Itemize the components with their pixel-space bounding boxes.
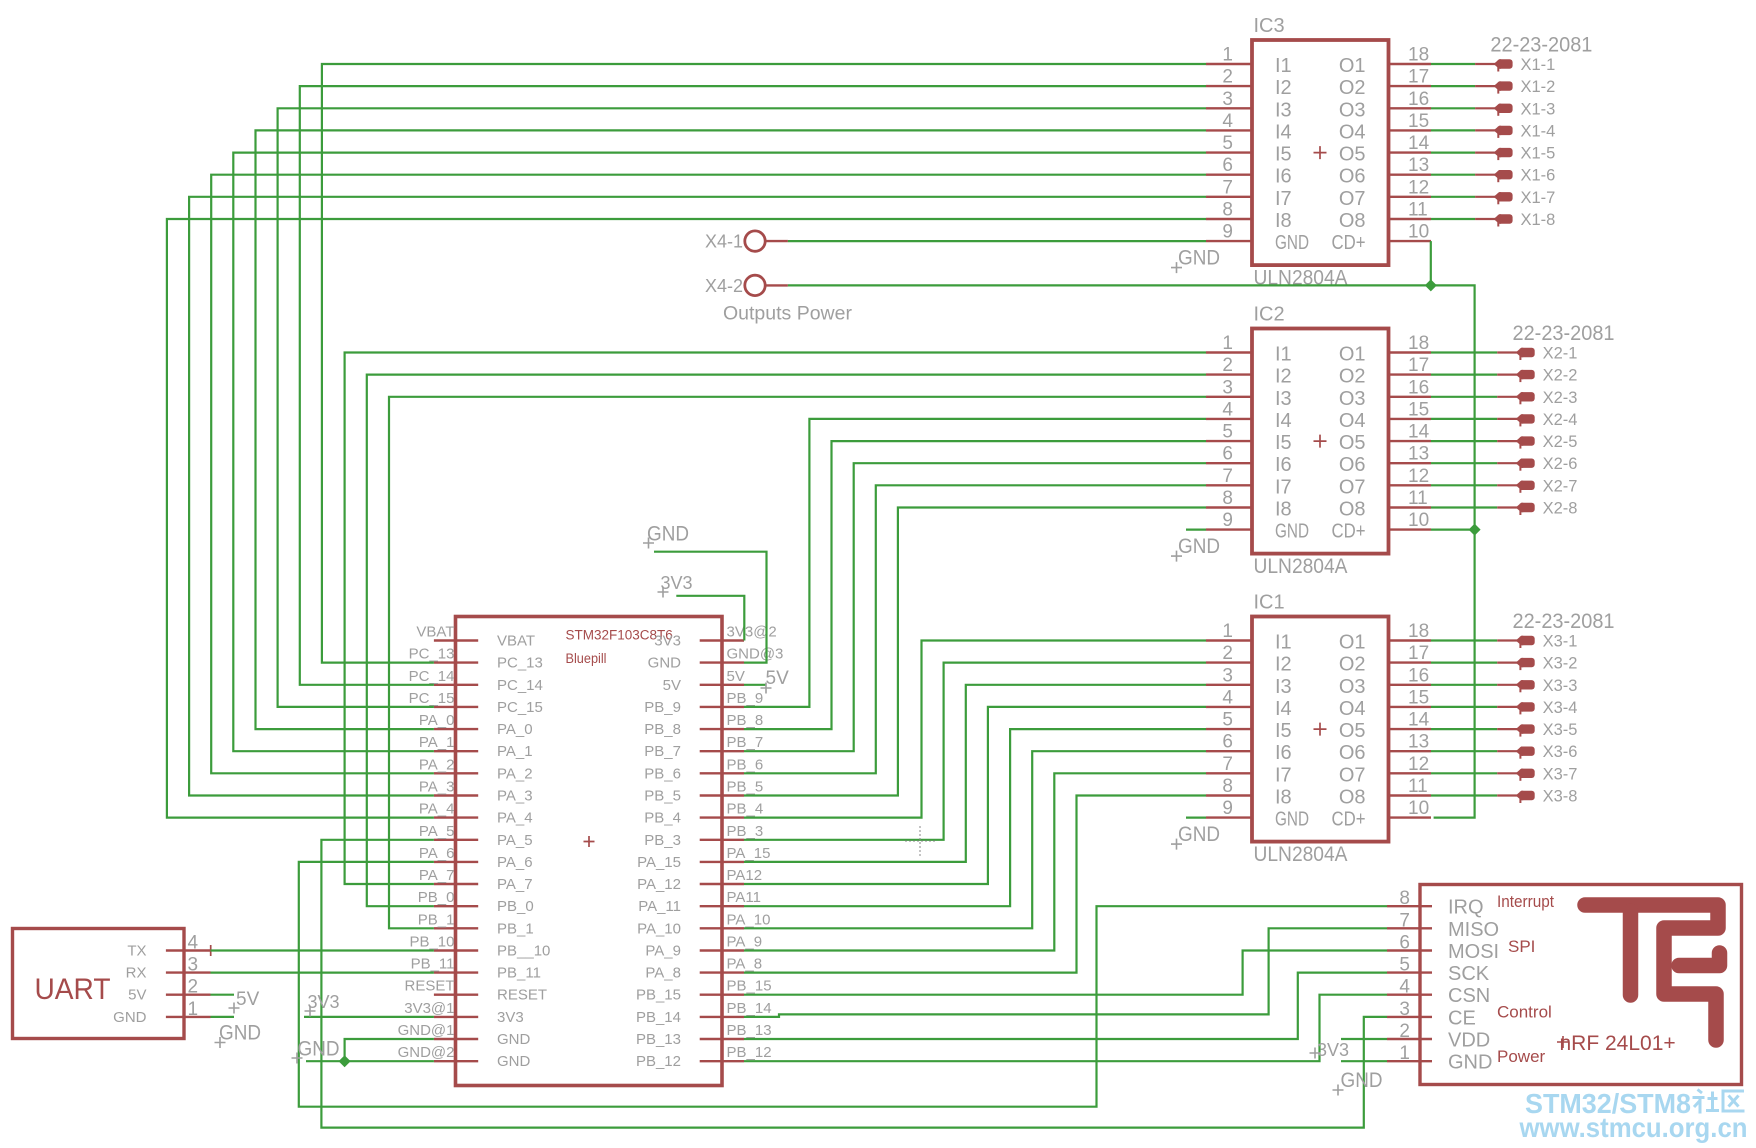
junction X4-2/IC3 CD+ [1425,279,1437,291]
wire IC2 O5 to X2-5 [1431,440,1497,442]
Bluepill right pin PB_15 stub [700,994,744,996]
svg-text:O4: O4 [1339,121,1366,143]
IC3 pin 6 (I6) stub [1206,173,1252,175]
UART pin TX stub [166,949,211,951]
svg-text:9: 9 [1222,222,1233,243]
Bluepill right pin PB_4 stub [700,816,744,818]
connector X1-3 pin [1475,107,1495,109]
svg-text:8: 8 [1222,200,1233,221]
svg-text:4: 4 [1222,687,1233,708]
Bluepill left pin PA_5 stub [434,839,478,841]
wire PB_8 to IC2 I5 [744,441,1206,729]
svg-text:PB_14: PB_14 [727,1000,772,1017]
svg-text:PA_3: PA_3 [497,788,533,805]
svg-text:Interrupt: Interrupt [1497,892,1554,911]
svg-text:O8: O8 [1339,499,1366,521]
svg-text:PA_8: PA_8 [727,956,763,973]
IC1 pin 16 (O3) stub [1389,684,1432,686]
svg-text:CE: CE [1448,1007,1476,1029]
wire IC1 O8 to X3-8 [1431,794,1497,796]
wire GND@2 to ground [306,1060,434,1062]
connector X1-1 pin [1475,63,1495,65]
wire IC3 O2 to X1-2 [1431,85,1475,87]
svg-text:3V3@2: 3V3@2 [727,624,777,641]
IC3 pin 2 (I2) stub [1206,85,1252,87]
svg-text:10: 10 [1408,510,1429,531]
Bluepill right pin PB_8 stub [700,728,744,730]
svg-text:5: 5 [1399,955,1410,976]
Bluepill left pin GND stub [434,1060,478,1062]
svg-text:7: 7 [1222,177,1233,198]
wire PA_12 to IC1 I4 [744,707,1206,884]
wire IC3 O1 to X1-1 [1431,63,1475,65]
svg-text:PB_5: PB_5 [727,779,764,796]
connector X4-2 pin stub [766,284,788,286]
nRF logo hook [1679,953,1720,966]
svg-text:3V3: 3V3 [308,992,340,1012]
svg-text:14: 14 [1408,133,1430,154]
IC2 pin 8 (I8) stub [1206,506,1252,508]
IC1 pin 7 (I7) stub [1206,772,1252,774]
svg-text:PA_7: PA_7 [497,876,533,893]
Bluepill right pin PB_14 stub [700,1016,744,1018]
wire PB_3 to IC1 I2 [744,663,1206,840]
svg-text:PB__10: PB__10 [497,943,550,960]
Bluepill left pin PB_0 stub [434,905,478,907]
svg-text:GND@3: GND@3 [727,646,784,663]
svg-text:8: 8 [1222,776,1233,797]
connector X2-7 pin [1497,484,1517,486]
IC1 pin 8 (I8) stub [1206,794,1252,796]
svg-text:10: 10 [1408,222,1429,243]
wire IC3 O4 to X1-4 [1431,129,1475,131]
IC2 pin 18 (O1) stub [1389,351,1432,353]
svg-text:PB_4: PB_4 [644,810,681,827]
nRF logo T-stem [1623,911,1639,995]
svg-text:PA_9: PA_9 [727,934,763,951]
svg-text:I4: I4 [1275,698,1292,720]
svg-text:X1-3: X1-3 [1521,100,1556,118]
svg-text:Bluepill: Bluepill [566,650,607,666]
svg-text:3V3: 3V3 [654,633,681,650]
svg-text:X2-2: X2-2 [1543,367,1578,385]
IC1 origin cross [1314,723,1327,736]
IC2 pin 14 (O5) stub [1389,440,1432,442]
svg-text:Control: Control [1497,1003,1552,1022]
svg-text:PA_6: PA_6 [497,854,533,871]
svg-text:PB_8: PB_8 [644,721,681,738]
wire PC_14 to IC3 I2 [300,86,1206,685]
Bluepill left pin PC_14 stub [434,684,478,686]
svg-text:7: 7 [1222,754,1233,775]
Bluepill right pin PA_10 stub [700,927,744,929]
svg-text:11: 11 [1408,776,1428,797]
connector X3-4 pin [1497,706,1517,708]
svg-text:I2: I2 [1275,654,1292,676]
svg-text:PA_9: PA_9 [645,943,681,960]
svg-text:I7: I7 [1275,764,1292,786]
svg-text:ULN2804A: ULN2804A [1254,843,1348,866]
wire PB_12 to nRF CSN [744,995,1387,1061]
svg-text:2: 2 [1222,355,1233,376]
svg-text:RESET: RESET [404,978,454,995]
IC2 pin 4 (I4) stub [1206,418,1252,420]
UART origin cross [205,945,216,956]
svg-text:X4-2: X4-2 [705,276,743,296]
svg-text:PC_13: PC_13 [497,655,543,672]
svg-text:O5: O5 [1339,432,1366,454]
svg-text:PB_7: PB_7 [727,734,764,751]
svg-text:I4: I4 [1275,410,1292,432]
svg-text:I8: I8 [1275,787,1292,809]
svg-text:I8: I8 [1275,499,1292,521]
svg-text:3V3: 3V3 [661,573,693,593]
wire IC2 O4 to X2-4 [1431,418,1497,420]
svg-text:PA_10: PA_10 [727,911,771,928]
svg-text:1: 1 [1222,45,1233,66]
nRF pin CE stub [1387,1016,1432,1018]
Bluepill right pin GND stub [700,661,744,663]
IC1 pin 2 (I2) stub [1206,661,1252,663]
connector X3-2 pin [1497,661,1517,663]
svg-text:GND: GND [1275,809,1309,831]
svg-text:3: 3 [1222,377,1233,398]
svg-text:X1-1: X1-1 [1521,56,1556,74]
wire IC1 O1 to X3-1 [1431,639,1497,641]
wire IC2 O3 to X2-3 [1431,396,1497,398]
svg-text:11: 11 [1408,488,1428,509]
wire IC1 O4 to X3-4 [1431,706,1497,708]
svg-text:18: 18 [1408,333,1429,354]
IC IC3 ULN2804A box [1252,40,1389,265]
svg-text:22-23-2081: 22-23-2081 [1490,34,1592,57]
connector X3-6 pin [1497,750,1517,752]
IC1 pin 1 (I1) stub [1206,639,1252,641]
svg-text:18: 18 [1408,45,1429,66]
Bluepill left pin PB_11 stub [434,971,478,973]
connector X1-7 pin [1475,196,1495,198]
wire PA_2 to IC3 I6 [211,175,1206,774]
svg-text:3: 3 [188,955,199,976]
nRF logo T-bar [1585,905,1718,1040]
svg-text:PA_4: PA_4 [497,810,533,827]
svg-text:1: 1 [1222,333,1233,354]
svg-text:I6: I6 [1275,166,1292,188]
svg-text:10: 10 [1408,798,1429,819]
Bluepill right pin PB_6 stub [700,772,744,774]
IC1 pin 15 (O4) stub [1389,706,1432,708]
svg-text:18: 18 [1408,621,1429,642]
svg-text:6: 6 [1222,155,1233,176]
IC3 pin 18 (O1) stub [1389,63,1432,65]
svg-text:X2-6: X2-6 [1543,455,1578,473]
IC3 pin 14 (O5) stub [1389,151,1432,153]
svg-text:IC1: IC1 [1254,592,1285,614]
IC3 pin 17 (O2) stub [1389,85,1432,87]
svg-text:5: 5 [1222,422,1233,443]
svg-text:PB_14: PB_14 [636,1009,681,1026]
svg-text:PA_1: PA_1 [419,734,455,751]
wire PB_1 to IC2 I3 [389,397,1206,929]
svg-text:X1-5: X1-5 [1521,145,1556,163]
wire IC1 O5 to X3-5 [1431,728,1497,730]
svg-text:X3-3: X3-3 [1543,677,1578,695]
svg-text:GND: GND [497,1031,531,1048]
wire IC1 O2 to X3-2 [1431,661,1497,663]
connector X1-5 pin [1475,152,1495,154]
wire PC_13 to IC3 I1 [322,64,1206,663]
svg-text:PB_1: PB_1 [418,911,455,928]
svg-text:O7: O7 [1339,188,1366,210]
svg-text:6: 6 [1399,933,1410,954]
wire IC2 O8 to X2-8 [1431,506,1497,508]
svg-text:Outputs Power: Outputs Power [723,303,852,325]
svg-text:X4-1: X4-1 [705,232,743,252]
svg-text:X1-4: X1-4 [1521,122,1556,140]
svg-text:PB_7: PB_7 [644,743,681,760]
svg-text:I3: I3 [1275,676,1292,698]
svg-text:16: 16 [1408,665,1429,686]
svg-text:VBAT: VBAT [416,624,454,641]
wire PA_3 to IC3 I7 [189,197,1206,796]
svg-text:PB_9: PB_9 [727,690,764,707]
UART pin RX stub [166,971,211,973]
svg-text:1: 1 [1222,621,1233,642]
svg-text:PB_0: PB_0 [497,898,534,915]
svg-text:16: 16 [1408,89,1429,110]
wire PA_5 to nRF CE [321,840,1387,1128]
svg-text:PC_13: PC_13 [409,646,455,663]
svg-text:I3: I3 [1275,99,1292,121]
svg-text:7: 7 [1222,466,1233,487]
svg-text:CSN: CSN [1448,985,1490,1007]
IC2 pin 15 (O4) stub [1389,418,1432,420]
svg-text:9: 9 [1222,798,1233,819]
Bluepill left pin PA_0 stub [434,728,478,730]
watermark CJK qu [1723,1091,1745,1111]
svg-text:GND: GND [1275,521,1309,543]
svg-text:8: 8 [1222,488,1233,509]
svg-text:I7: I7 [1275,476,1292,498]
svg-text:4: 4 [188,933,199,954]
IC3 pin 11 (O8) stub [1389,218,1432,220]
svg-text:9: 9 [1222,510,1233,531]
svg-text:X1-6: X1-6 [1521,167,1556,185]
junction IC2 CD+ [1469,524,1481,536]
svg-text:I2: I2 [1275,77,1292,99]
svg-text:4: 4 [1222,111,1233,132]
nRF origin cross [1557,1036,1569,1048]
svg-text:PA_6: PA_6 [419,845,455,862]
wire IC3 O6 to X1-6 [1431,174,1475,176]
IC3 pin 12 (O7) stub [1389,196,1432,198]
svg-text:O1: O1 [1339,344,1366,366]
wire IC1 O7 to X3-7 [1431,772,1497,774]
svg-text:RESET: RESET [497,987,547,1004]
Bluepill origin cross [584,836,595,847]
svg-text:PB_11: PB_11 [411,956,455,973]
svg-text:5V: 5V [663,677,681,694]
svg-text:IC2: IC2 [1254,304,1285,326]
svg-text:X3-1: X3-1 [1543,633,1578,651]
cursor crosshair artifact [905,826,935,856]
Bluepill left pin PC_15 stub [434,706,478,708]
svg-text:MOSI: MOSI [1448,941,1499,963]
svg-text:I6: I6 [1275,454,1292,476]
Bluepill left pin 3V3 stub [434,1016,478,1018]
svg-text:I8: I8 [1275,210,1292,232]
connector X2-3 pin [1497,396,1517,398]
wire PA_6 to nRF IRQ [299,862,1387,1107]
Bluepill right pin PA_8 stub [700,971,744,973]
connector X3-8 pin [1497,794,1517,796]
svg-text:GND: GND [219,1021,261,1045]
svg-text:Power: Power [1497,1047,1546,1066]
IC2 pin 12 (O7) stub [1389,484,1432,486]
IC1 pin 11 (O8) stub [1389,794,1432,796]
svg-text:PB_15: PB_15 [636,987,681,1004]
svg-text:CD+: CD+ [1332,521,1366,543]
svg-text:15: 15 [1408,687,1429,708]
connector X4-1 pad circle [745,231,765,251]
svg-text:O4: O4 [1339,698,1366,720]
svg-text:I1: I1 [1275,344,1292,366]
svg-text:PC_14: PC_14 [497,677,543,694]
svg-text:6: 6 [1222,444,1233,465]
wire PA_11 to IC1 I5 [744,729,1206,906]
svg-text:X3-8: X3-8 [1543,788,1578,806]
wire IC1 O3 to X3-3 [1431,684,1497,686]
IC2 origin cross [1314,435,1327,448]
svg-text:X3-6: X3-6 [1543,743,1578,761]
svg-text:PA_2: PA_2 [419,756,455,773]
IC2 pin 11 (O8) stub [1389,506,1432,508]
svg-text:4: 4 [1222,399,1233,420]
Bluepill right pin PB_9 stub [700,706,744,708]
svg-text:I1: I1 [1275,55,1292,77]
IC2 pin 13 (O6) stub [1389,462,1432,464]
svg-text:X3-5: X3-5 [1543,721,1578,739]
svg-text:O1: O1 [1339,55,1366,77]
svg-text:2: 2 [1399,1021,1410,1042]
svg-text:13: 13 [1408,732,1429,753]
svg-text:O3: O3 [1339,99,1366,121]
svg-text:12: 12 [1408,754,1429,775]
junction GND@1/GND@2 [339,1055,351,1067]
svg-text:PB_13: PB_13 [636,1031,681,1048]
connector X1-6 pin [1475,174,1495,176]
wire 3V3@2 to supply [676,596,744,641]
svg-text:PC_15: PC_15 [409,690,455,707]
svg-text:PA_3: PA_3 [419,779,455,796]
svg-text:nRF 24L01+: nRF 24L01+ [1560,1032,1676,1055]
IC3 origin cross [1314,146,1327,159]
svg-text:I5: I5 [1275,144,1292,166]
svg-text:SCK: SCK [1448,963,1490,985]
svg-text:3V3: 3V3 [1317,1040,1349,1060]
svg-text:14: 14 [1408,422,1430,443]
nRF24L01+ module box [1420,885,1742,1085]
svg-text:I3: I3 [1275,388,1292,410]
svg-text:1: 1 [188,999,199,1020]
svg-text:PA_0: PA_0 [497,721,533,738]
IC2 pin 9 (GND) stub [1206,528,1252,530]
IC2 pin 17 (O2) stub [1389,373,1432,375]
svg-text:X2-8: X2-8 [1543,500,1578,518]
IC1 pin 4 (I4) stub [1206,706,1252,708]
svg-text:5V: 5V [766,668,790,689]
svg-text:O5: O5 [1339,144,1366,166]
connector X1-8 pin [1475,218,1495,220]
svg-text:17: 17 [1408,67,1429,88]
svg-text:PB_12: PB_12 [727,1044,772,1061]
Bluepill left pin PA_1 stub [434,750,478,752]
Bluepill right pin PA_9 stub [700,949,744,951]
svg-text:PA_15: PA_15 [727,845,771,862]
svg-text:PB_15: PB_15 [727,978,772,995]
connector X4-1 pin stub [766,240,788,242]
svg-text:X2-4: X2-4 [1543,411,1578,429]
nRF pin MOSI stub [1387,949,1432,951]
Bluepill left pin RESET stub [434,994,478,996]
nRF pin CSN stub [1387,994,1432,996]
IC1 pin 10 (CD+) stub [1389,816,1432,818]
Bluepill right pin PA_12 stub [700,883,744,885]
svg-text:GND: GND [1178,245,1220,269]
Bluepill left pin PA_3 stub [434,794,478,796]
watermark CJK she [1693,1090,1720,1114]
IC1 pin 14 (O5) stub [1389,728,1432,730]
svg-text:5V: 5V [727,668,745,685]
svg-text:12: 12 [1408,466,1429,487]
Bluepill right pin PB_7 stub [700,750,744,752]
svg-text:2: 2 [1222,643,1233,664]
wire IC3 O8 to X1-8 [1431,218,1475,220]
connector X2-4 pin [1497,418,1517,420]
svg-text:PB_3: PB_3 [727,823,764,840]
connector X2-2 pin [1497,374,1517,376]
svg-text:PA_8: PA_8 [645,965,681,982]
IC1 pin 3 (I3) stub [1206,684,1252,686]
Bluepill right pin PB_3 stub [700,839,744,841]
svg-text:17: 17 [1408,355,1429,376]
svg-text:O7: O7 [1339,764,1366,786]
Bluepill right pin PB_5 stub [700,794,744,796]
svg-text:X1-8: X1-8 [1521,211,1556,229]
wire UART TX to PB_10 [211,949,434,951]
svg-text:3V3@1: 3V3@1 [404,1000,454,1017]
svg-text:GND: GND [497,1053,531,1070]
svg-text:PA11: PA11 [727,889,761,906]
svg-text:O2: O2 [1339,366,1366,388]
connector X2-1 pin [1497,351,1517,353]
svg-text:5V: 5V [128,987,146,1004]
Bluepill right pin PB_13 stub [700,1038,744,1040]
Bluepill right pin PA_15 stub [700,861,744,863]
connector X4-2 pad circle [745,275,765,295]
svg-text:X2-3: X2-3 [1543,389,1578,407]
svg-text:4: 4 [1399,977,1410,998]
svg-text:www.stmcu.org.cn: www.stmcu.org.cn [1519,1112,1748,1143]
wire PA_7 to IC2 I1 [345,353,1206,885]
wire IC3 O3 to X1-3 [1431,107,1475,109]
svg-text:IRQ: IRQ [1448,897,1484,919]
svg-text:14: 14 [1408,710,1430,731]
wire IC2 GND stub to supply [1186,528,1206,530]
svg-text:X1-7: X1-7 [1521,189,1556,207]
svg-text:O7: O7 [1339,476,1366,498]
svg-text:GND: GND [113,1009,147,1026]
